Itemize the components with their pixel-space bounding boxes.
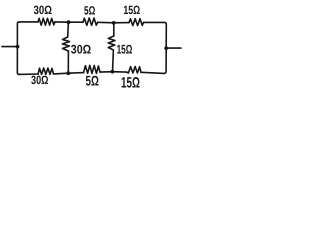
node B (top, 5-15 ohm junction) bbox=[112, 21, 116, 25]
wire: left vertical rail bbox=[17, 22, 19, 75]
wire: top rail segment to node B bbox=[98, 21, 129, 24]
resistor R1 30 ohm top bbox=[38, 18, 55, 25]
wire: bottom rail segment to node C bbox=[54, 73, 84, 74]
wire: top rail right segment bbox=[144, 22, 167, 24]
wire: branch node A down bbox=[67, 22, 70, 37]
svg-text:30Ω: 30Ω bbox=[34, 3, 53, 17]
wire: top rail segment to node A bbox=[55, 21, 83, 23]
wire: branch node B down bbox=[113, 23, 115, 36]
svg-text:15Ω: 15Ω bbox=[121, 74, 140, 91]
svg-text:5Ω: 5Ω bbox=[86, 73, 99, 89]
wire: bottom rail left segment bbox=[19, 73, 38, 75]
resistor R2 5 ohm top bbox=[83, 18, 98, 25]
wire: right lead bbox=[166, 47, 181, 49]
svg-text:30Ω: 30Ω bbox=[31, 73, 49, 87]
resistor R5 15 ohm middle bbox=[108, 36, 115, 50]
node A (top, 30-5 ohm junction) bbox=[67, 20, 71, 24]
wire: top rail left segment bbox=[19, 21, 38, 23]
wire: left lead bbox=[2, 46, 17, 48]
svg-text:30Ω: 30Ω bbox=[71, 43, 91, 57]
wire: bottom rail segment to node D bbox=[100, 71, 127, 73]
resistor R4 30 ohm middle bbox=[62, 37, 69, 51]
resistor R7 5 ohm bottom bbox=[84, 65, 100, 73]
resistor R6 30 ohm bottom bbox=[38, 68, 53, 74]
svg-text:15Ω: 15Ω bbox=[117, 43, 133, 57]
wire: bottom rail right segment bbox=[141, 72, 164, 73]
node: right lead junction bbox=[164, 46, 168, 50]
resistor R3 15 ohm top bbox=[129, 19, 144, 26]
svg-text:15Ω: 15Ω bbox=[123, 3, 140, 17]
svg-text:5Ω: 5Ω bbox=[84, 4, 96, 18]
node D (bottom, 5-15 ohm junction) bbox=[111, 70, 115, 74]
resistor R8 15 ohm bottom bbox=[127, 67, 141, 74]
wire: branch down to node C bbox=[67, 51, 69, 73]
wire: branch down to node D bbox=[112, 50, 115, 72]
node C (bottom, 30-5 ohm junction) bbox=[66, 71, 70, 75]
wire: right vertical rail bbox=[164, 24, 166, 73]
node: left lead junction bbox=[16, 45, 20, 49]
